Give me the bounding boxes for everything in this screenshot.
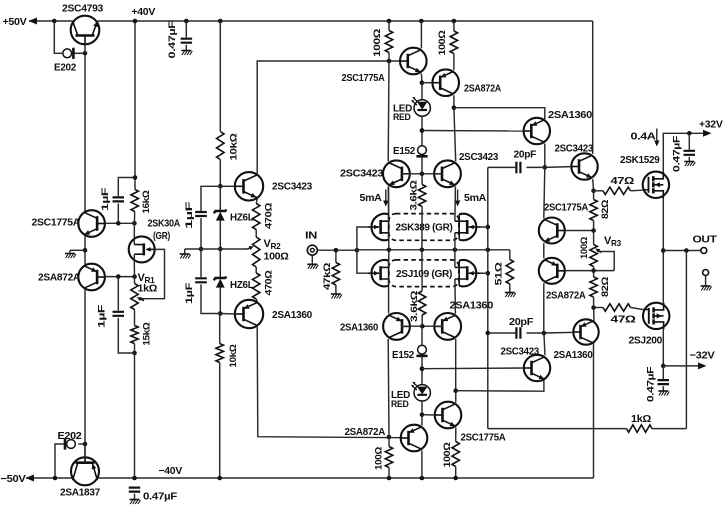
wire 2SA872A-1 collector: [453, 54, 455, 71]
wire J109R gate: [481, 272, 488, 274]
svg-text:RED: RED: [391, 399, 409, 409]
svg-text:1kΩ: 1kΩ: [631, 414, 651, 425]
resistor 10kOhm lower: [216, 344, 223, 363]
svg-text:0.47µF: 0.47µF: [672, 135, 683, 172]
wire K389L source down: [388, 233, 390, 250]
svg-text:1µF: 1µF: [184, 201, 195, 229]
svg-text:2SA872A: 2SA872A: [345, 426, 386, 438]
svg-text:2SA1837: 2SA1837: [60, 487, 100, 499]
resistor 47 upper: [594, 190, 603, 192]
wire 2SJ200 drain to -32V: [662, 330, 664, 366]
wire emitter link lower: [456, 379, 544, 391]
svg-text:2SA1360: 2SA1360: [548, 109, 592, 121]
resistor 51Ohm: [509, 250, 511, 260]
wire 2SC1775A-3 base: [422, 414, 435, 416]
svg-text:100Ω: 100Ω: [442, 442, 453, 468]
wire lower cascode bases: [401, 325, 443, 327]
svg-text:HZ6L: HZ6L: [230, 279, 254, 291]
capacitor 0.47uF bottom-left: [129, 488, 140, 492]
svg-text:82Ω: 82Ω: [600, 199, 611, 219]
svg-text:RED: RED: [393, 112, 411, 122]
svg-text:HZ6L: HZ6L: [230, 212, 254, 224]
svg-text:2SC3423: 2SC3423: [555, 143, 594, 155]
transistor 2SA1837: [71, 457, 99, 485]
diode E152 upper (CRD): [421, 131, 423, 146]
resistor 47kOhm: [335, 250, 337, 262]
svg-text:2SK389 (GR): 2SK389 (GR): [396, 223, 453, 234]
svg-text:5mA: 5mA: [464, 193, 486, 204]
wire cap column mid: [200, 218, 202, 277]
wire cascode-left collector down: [387, 339, 390, 437]
svg-text:1µF: 1µF: [97, 304, 108, 328]
svg-text:(GR): (GR): [153, 230, 170, 242]
diode E202 (CRD): [63, 49, 72, 58]
svg-text:2SJ109 (GR): 2SJ109 (GR): [396, 269, 452, 280]
led LED RED lower: [421, 369, 423, 385]
svg-text:2SC3423: 2SC3423: [272, 181, 312, 193]
wire 2SA1360-5 base: [544, 331, 573, 334]
svg-text:−50V: −50V: [1, 473, 26, 485]
wire 2SC3423-5 collector: [544, 333, 545, 355]
jfet 2SJ109 left unit: [388, 261, 390, 286]
transistor 2SC1775A left: [78, 210, 105, 237]
wire 15k to node: [134, 344, 136, 354]
wire cascode bases: [401, 173, 443, 175]
transistor 2SC1775A follower-lower: [435, 402, 462, 429]
wire 2SA1360-2 base: [220, 313, 235, 316]
wire 2SK30A source down: [133, 254, 135, 276]
wire cap column bottom: [201, 284, 220, 313]
wire VR2 wiper arrow: [248, 247, 250, 250]
svg-text:10kΩ: 10kΩ: [228, 344, 239, 368]
transistor 2SC1775A vas-upper: [400, 48, 427, 75]
transistor 2SA872A vas-lower: [401, 425, 428, 452]
wire 2SC1775A base line: [105, 222, 134, 224]
wire vas-lower collector: [420, 476, 425, 481]
wire 2SC3423-4 base: [545, 166, 571, 169]
diode E202 lower (CRD): [64, 438, 67, 449]
svg-text:16kΩ: 16kΩ: [141, 190, 152, 214]
svg-text:15kΩ: 15kΩ: [142, 322, 153, 346]
connector IN jack: [307, 245, 317, 255]
svg-text:2SA872A: 2SA872A: [464, 83, 502, 95]
wire left column x85 upper: [84, 53, 86, 211]
wire 2SK30A gate to VR1 wiper: [141, 249, 165, 298]
resistor 47 lower: [594, 307, 603, 309]
resistor 3.6k upper: [421, 174, 423, 185]
svg-text:−40V: −40V: [159, 465, 183, 477]
ground G6 under 51: [509, 284, 511, 291]
node -32V arrow: [663, 365, 703, 367]
wire 1uF to base node: [117, 204, 119, 224]
svg-text:+50V: +50V: [3, 16, 27, 28]
mosfet 2SJ200: [643, 303, 669, 329]
wire center ref line: [185, 248, 248, 250]
transistor 2SC3423 driver-lower: [524, 355, 550, 381]
svg-text:OUT: OUT: [693, 234, 718, 246]
wire 2SA872A-1 emitter: [453, 95, 455, 107]
current arrow 5mA right: [457, 190, 459, 203]
capacitor 20pF lower: [527, 332, 544, 334]
wire mid column lower: [543, 283, 545, 333]
svg-text:1µF: 1µF: [184, 282, 195, 304]
svg-text:3.6kΩ: 3.6kΩ: [409, 290, 420, 322]
svg-text:3.6kΩ: 3.6kΩ: [409, 180, 420, 211]
wire IN line: [317, 249, 357, 251]
wire 2SA872A base line: [105, 276, 135, 278]
wire feedback column: [487, 167, 489, 428]
wire 2SA1360-5 emitter: [593, 308, 595, 322]
wire J109L drain down: [388, 279, 390, 314]
transistor 2SA1360 cascode-left: [383, 313, 410, 340]
svg-text:2SC1775A: 2SC1775A: [461, 432, 507, 444]
wire -40V bottom rail: [26, 477, 73, 479]
connector OUT ground terminal: [703, 270, 709, 276]
wire gnd stub: [70, 249, 85, 251]
wire VR1 wiper arrow: [141, 299, 144, 300]
svg-text:2SA1360: 2SA1360: [554, 349, 593, 361]
wire 1uF tap: [118, 178, 135, 197]
svg-text:2SA1360: 2SA1360: [272, 309, 312, 321]
resistor 470 upper: [256, 199, 257, 204]
svg-text:E202: E202: [58, 430, 82, 442]
svg-text:2SC4793: 2SC4793: [62, 3, 103, 15]
resistor 100 third: [387, 476, 392, 481]
resistor 10kOhm upper: [217, 132, 224, 160]
svg-text:5mA: 5mA: [360, 193, 382, 204]
svg-text:1kΩ: 1kΩ: [138, 284, 158, 295]
wire 2SC4793 base down: [84, 44, 86, 53]
potentiometer VR3 100: [593, 231, 595, 245]
svg-text:2SC3423: 2SC3423: [501, 346, 540, 358]
svg-text:100Ω: 100Ω: [579, 236, 590, 259]
wire emitter link to 2SA1360: [454, 108, 545, 120]
wire 2SA1360-1 collector: [544, 144, 546, 168]
svg-text:2SC3423: 2SC3423: [340, 168, 383, 180]
svg-text:470Ω: 470Ω: [263, 270, 274, 296]
diode E152 lower (CRD): [421, 326, 423, 345]
svg-text:100Ω: 100Ω: [374, 446, 385, 470]
transistor 2SA872A bias: [539, 258, 565, 284]
wire rail junction to E202: [52, 19, 57, 24]
ground G1: [69, 250, 71, 253]
capacitor 1uF lower: [117, 277, 119, 311]
wire 2SA1360-1 base line: [420, 128, 425, 133]
wire 2SC3423-4 emitter: [592, 179, 595, 191]
wire 2SA1360-2 collector loop: [257, 327, 401, 438]
svg-text:2SA1360: 2SA1360: [450, 300, 494, 312]
wire J109L source up: [388, 250, 390, 268]
transistor 2SA1360 cascode-right: [434, 313, 461, 340]
svg-text:100Ω: 100Ω: [372, 28, 383, 57]
wire J109R source up: [454, 250, 456, 268]
resistor 100 first: [387, 19, 392, 24]
svg-text:−32V: −32V: [690, 350, 715, 362]
svg-text:2SJ200: 2SJ200: [629, 335, 663, 347]
wire +40V top rail: [29, 20, 73, 22]
ground G3: [184, 249, 186, 252]
svg-text:47Ω: 47Ω: [611, 315, 636, 326]
capacitor 1uF mid-upper: [195, 212, 207, 216]
svg-text:+40V: +40V: [132, 6, 156, 18]
resistor 1kOhm feedback: [488, 428, 627, 430]
wire 2SC1775A-3 emitter: [455, 391, 457, 403]
wire feedback down: [685, 251, 687, 429]
svg-text:E202: E202: [54, 62, 76, 74]
transistor 2SC3423 cascode-right: [434, 160, 461, 187]
svg-text:100Ω: 100Ω: [437, 30, 448, 56]
resistor 100 second: [452, 19, 457, 24]
svg-text:0.47µF: 0.47µF: [167, 21, 178, 59]
transistor 2SC3423 first: [235, 172, 263, 200]
transistor 2SA872A left: [78, 264, 105, 291]
transistor 2SC3423 driver-upper: [571, 153, 597, 179]
resistor 16kOhm: [131, 189, 138, 211]
wire OUT line: [663, 250, 700, 252]
wire IN to upper gate: [357, 227, 367, 250]
capacitor 20pF upper: [527, 166, 545, 168]
wire vas-lower emitter: [421, 415, 423, 426]
wire cascode-right collector up: [454, 108, 456, 162]
wire K389R gate: [481, 226, 488, 228]
svg-text:47kΩ: 47kΩ: [322, 262, 333, 290]
node +50V arrow: [29, 18, 38, 25]
zener diode HZ6L lower: [219, 249, 221, 278]
wire VR3 wiper: [600, 252, 615, 271]
jfet 2SK389 right unit: [458, 214, 460, 239]
wire K389L drain up: [388, 187, 390, 222]
connector OUT terminal: [701, 248, 707, 254]
svg-text:2SC1775A: 2SC1775A: [342, 72, 386, 84]
transistor 2SA1360 second: [235, 300, 263, 328]
wire cascode-right emitter down: [454, 186, 457, 221]
svg-text:2SK30A: 2SK30A: [148, 218, 181, 230]
potentiometer VR2 100: [255, 230, 257, 238]
svg-text:20pF: 20pF: [514, 150, 537, 161]
svg-text:IN: IN: [305, 230, 317, 242]
svg-text:0.47µF: 0.47µF: [646, 366, 657, 402]
node -50V arrow: [26, 475, 35, 482]
jfet 2SJ109 right unit: [458, 261, 460, 286]
svg-text:2SC3423: 2SC3423: [459, 151, 498, 163]
wire left column x85 lower: [84, 290, 86, 463]
resistor 82 lower: [593, 271, 595, 277]
svg-text:2SA872A: 2SA872A: [546, 290, 586, 302]
svg-text:2SK1529: 2SK1529: [620, 154, 660, 166]
svg-text:2SC1775A: 2SC1775A: [544, 202, 589, 214]
wire vas-upper collector: [419, 19, 424, 24]
wire E202-2 loop: [55, 444, 64, 478]
wire bias pair link: [543, 243, 545, 258]
svg-text:47Ω: 47Ω: [611, 176, 635, 187]
capacitor 1uF upper: [113, 197, 125, 201]
svg-text:0.4A: 0.4A: [631, 132, 656, 143]
wire 10k to base node: [219, 160, 221, 187]
wire drain to +32V: [663, 133, 708, 171]
wire cap column top: [201, 186, 220, 211]
potentiometer VR1 1kOhm: [131, 284, 138, 310]
zener diode HZ6L upper: [219, 186, 221, 211]
wire 2SK30A drain up: [133, 223, 135, 244]
svg-text:2SC1775A: 2SC1775A: [32, 217, 81, 229]
wire VR1 top: [134, 277, 136, 284]
wire 16k to base node: [133, 212, 135, 224]
wire VR1 to 15k: [134, 310, 136, 326]
transistor 2SC4793: [71, 16, 100, 45]
wire mid column upper: [544, 167, 545, 218]
wire emitter to gnd node: [84, 236, 86, 264]
wire vas-upper emitter: [420, 74, 423, 83]
resistor 470 lower: [255, 267, 257, 273]
wire node to -40V rail: [134, 353, 136, 478]
resistor 15kOhm: [131, 326, 138, 344]
svg-text:+32V: +32V: [699, 119, 723, 131]
svg-text:100Ω: 100Ω: [264, 252, 289, 263]
svg-text:2SA1360: 2SA1360: [340, 322, 378, 334]
wire 2SA1837 base: [84, 444, 86, 462]
wire IN to lower gate: [357, 250, 367, 273]
capacitor 0.47uF top rail: [184, 19, 189, 24]
dashed package 2SK389: [389, 214, 459, 241]
svg-text:E152: E152: [393, 145, 415, 157]
svg-text:82Ω: 82Ω: [600, 276, 611, 297]
transistor 2SA872A follower-upper: [432, 69, 459, 96]
mosfet 2SK1529: [643, 172, 669, 198]
wire cascode-right collector down: [455, 339, 457, 391]
capacitor 1uF mid-lower: [195, 278, 207, 282]
node +32V arrow: [703, 130, 712, 137]
svg-text:2SA872A: 2SA872A: [38, 272, 81, 284]
resistor 100 fourth: [455, 428, 457, 442]
wire x135 from rail: [134, 21, 136, 189]
wire source to OUT: [662, 199, 664, 303]
svg-text:10kΩ: 10kΩ: [228, 133, 239, 161]
capacitor 0.47uF +32V: [688, 133, 690, 149]
svg-text:E152: E152: [392, 349, 414, 361]
resistor 82 upper: [593, 191, 595, 200]
transistor 2SA1360 driver-upper: [524, 118, 550, 144]
wire 10k2 down: [219, 314, 221, 344]
transistor 2SA1360 driver-lower: [573, 319, 598, 344]
wire 10k from rail: [218, 19, 223, 24]
wire cascode-left collector up: [387, 61, 390, 161]
svg-text:1µF: 1µF: [100, 187, 111, 211]
wire 2SC3423-1 collector loop: [257, 61, 400, 174]
svg-text:51Ω: 51Ω: [494, 262, 505, 286]
wire 2SC3423-1 base: [220, 185, 235, 187]
dashed package 2SJ109: [389, 260, 459, 287]
transistor 2SC3423 cascode-left: [383, 160, 410, 187]
wire bias pnp base: [565, 270, 614, 272]
svg-text:0.47µF: 0.47µF: [143, 492, 177, 503]
wire 2SA872A-1 base: [422, 82, 432, 84]
ground G5 under 47k: [335, 285, 337, 293]
jfet 2SK30A: [129, 236, 155, 262]
wire source line: [357, 249, 510, 251]
capacitor 0.47uF -32V: [662, 366, 664, 379]
svg-text:20pF: 20pF: [509, 317, 533, 328]
transistor 2SC1775A bias: [539, 218, 565, 244]
wire cascode-left emitter down: [387, 186, 389, 213]
wire 2SC3423-5 base line: [420, 366, 425, 371]
led LED RED upper: [421, 83, 423, 100]
ground G4 under jack: [311, 255, 313, 263]
wire K389R source down: [454, 233, 456, 250]
wire cascode-right emitter up: [454, 279, 457, 314]
wire 10k2 to rail: [219, 363, 221, 479]
wire bias npn base: [565, 230, 594, 232]
jfet 2SK389 left unit: [388, 214, 390, 239]
svg-text:470Ω: 470Ω: [263, 202, 274, 229]
resistor 3.6k lower: [421, 315, 423, 326]
